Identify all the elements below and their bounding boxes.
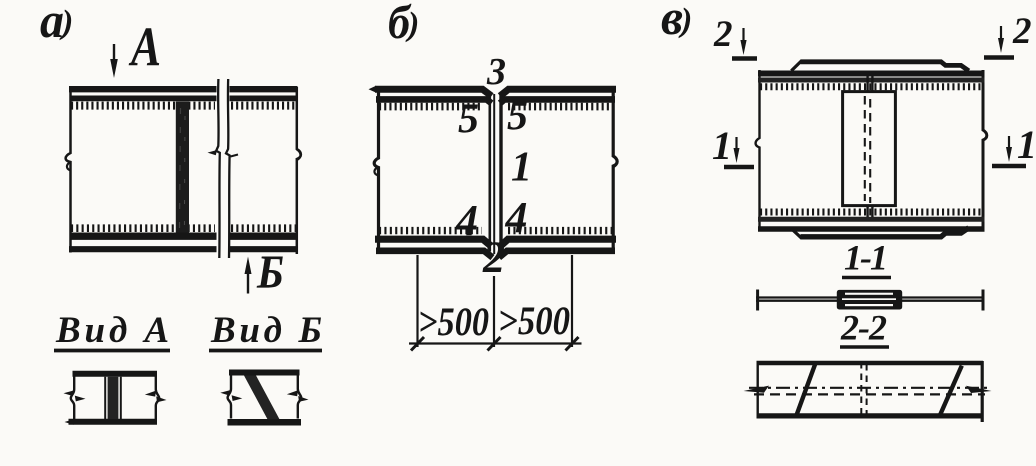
cut mark 1 right bar xyxy=(992,164,1026,169)
beam a right top hatch ticks xyxy=(231,102,296,110)
break mid dash xyxy=(231,155,239,157)
beam b left bottom flange inner bar xyxy=(375,239,491,246)
vid A weld left edge line xyxy=(104,377,106,419)
section 2-2 hidden joint dashed line 1 xyxy=(860,362,862,416)
beam a left top flange outer bar xyxy=(69,86,217,92)
svg-text:3: 3 xyxy=(486,51,506,93)
beam a right top flange outer bar xyxy=(230,86,298,92)
svg-text:5: 5 xyxy=(507,94,528,140)
beam b right bottom hatch ticks xyxy=(508,227,612,234)
web splice weld line 3 xyxy=(499,94,502,252)
beam b right top hatch ticks xyxy=(508,103,612,111)
bottom cover plate bar xyxy=(801,228,969,237)
cut mark 1 right arrow stem xyxy=(1008,136,1010,149)
package white slit web core xyxy=(842,298,896,300)
svg-text:): ) xyxy=(405,6,419,43)
beam v left edge line xyxy=(756,70,760,232)
vid A weld strip xyxy=(108,377,119,419)
dimension tick middle xyxy=(488,337,501,351)
view arrow B head xyxy=(245,257,252,275)
section 1-1 left end tick xyxy=(756,290,759,311)
svg-text:а: а xyxy=(40,0,64,48)
svg-text:>500: >500 xyxy=(498,298,570,343)
top cover plate bar xyxy=(801,62,969,71)
web joint below plate line 1 xyxy=(866,206,868,219)
section 2-2 flange bottom edge xyxy=(757,413,984,418)
svg-text:2: 2 xyxy=(482,233,505,282)
vid B bottom plate edge bar xyxy=(228,419,302,426)
bottom cover plate left bevel xyxy=(791,229,802,239)
beam a right edge line xyxy=(297,87,301,254)
vid B left break arrow xyxy=(220,390,231,396)
beam a left top flange inner bar xyxy=(70,96,217,102)
beam b left bottom hatch ticks xyxy=(379,227,482,234)
vid A left break arrow xyxy=(64,390,75,396)
vid B left edge line with break jog xyxy=(228,370,231,419)
beam b right top flange outer bar xyxy=(500,89,616,96)
svg-text:): ) xyxy=(59,4,73,41)
section 1-1 web line lower xyxy=(756,300,985,302)
section 1-1 splice plate package xyxy=(837,290,902,310)
svg-text:в: в xyxy=(661,0,683,45)
vid A right edge line with break jog xyxy=(156,371,159,419)
beam v top hatch ticks xyxy=(760,83,984,90)
title 1-1 underline xyxy=(842,276,891,280)
beam a left bottom flange inner bar xyxy=(70,232,217,239)
beam b right bottom flange outer bar xyxy=(499,251,615,258)
vid A right break dash xyxy=(156,396,166,402)
svg-text:1: 1 xyxy=(712,123,732,168)
dimension extension line left xyxy=(416,255,418,347)
svg-text:1: 1 xyxy=(1017,122,1036,167)
view arrow A stem xyxy=(113,44,115,62)
package white slit upper plate core xyxy=(845,293,893,295)
svg-text:2-2: 2-2 xyxy=(840,308,887,348)
vid B right edge line with break jog xyxy=(298,370,301,419)
svg-text:1-1: 1-1 xyxy=(844,238,888,278)
vid A right break arrow xyxy=(145,391,156,397)
vid B left break dash xyxy=(232,395,243,401)
section 2-2 axis right arrow xyxy=(966,386,992,393)
svg-text:4: 4 xyxy=(455,196,478,245)
beam b left edge line xyxy=(374,87,378,253)
dimension line xyxy=(409,342,582,344)
beam a left bottom flange outer bar xyxy=(69,246,217,252)
svg-text:2: 2 xyxy=(713,14,733,55)
beam v bottom flange edge xyxy=(758,226,985,232)
splice plate dashed weld line 1 xyxy=(864,96,866,201)
cut mark 2 left bar xyxy=(732,56,757,61)
beam v web bottom line xyxy=(758,217,985,222)
vid A top plate edge bar xyxy=(73,371,158,377)
beam a right bottom hatch ticks xyxy=(231,224,296,232)
beam a right bottom flange inner bar xyxy=(230,232,298,239)
beam a left edge line xyxy=(66,86,71,253)
svg-text:Б: Б xyxy=(256,246,284,299)
cut mark 1 left arrow head xyxy=(734,148,740,163)
beam b right top flange inner bar xyxy=(500,99,615,103)
beam v top flange edge xyxy=(758,71,985,77)
cut mark 2 right arrow head xyxy=(998,38,1004,53)
vid B right break dash xyxy=(298,396,308,402)
view arrow B stem xyxy=(247,272,249,294)
section 2-2 right edge xyxy=(981,361,984,422)
dimension tick left xyxy=(411,337,424,351)
title Vid B underline xyxy=(209,349,322,353)
section 2-2 hidden dashed line xyxy=(754,393,985,395)
section 1-1 right end tick xyxy=(982,290,985,311)
beam b right edge line xyxy=(613,87,617,253)
section 2-2 weld diagonal left xyxy=(796,364,815,417)
beam b left edge break tip xyxy=(374,167,378,176)
vid B oblique weld strip xyxy=(244,376,280,420)
svg-text:2: 2 xyxy=(1012,11,1032,52)
beam a right top flange inner bar xyxy=(230,96,298,102)
cut mark 2 right arrow stem xyxy=(1000,26,1002,40)
vid A bottom bar left point xyxy=(65,419,74,425)
title 2-2 underline xyxy=(840,345,889,349)
break mid arrow flag xyxy=(208,150,218,155)
break line right wavy xyxy=(226,79,230,258)
dimension extension line middle xyxy=(493,276,495,347)
package white slit lower plate core xyxy=(845,304,893,306)
beam a right edge break tip xyxy=(297,150,301,161)
web joint below plate line 2 xyxy=(871,206,873,219)
cut mark 1 right arrow head xyxy=(1006,147,1012,162)
cut mark 2 left arrow head xyxy=(740,40,746,55)
vid B right break arrow xyxy=(287,390,298,396)
section 2-2 hidden joint dashed line 2 xyxy=(866,364,868,416)
cut mark 2 left arrow stem xyxy=(742,28,744,42)
svg-text:Вид А: Вид А xyxy=(55,310,169,351)
break line left wavy xyxy=(216,79,220,258)
beam a left edge break tip xyxy=(67,162,71,171)
dimension tick right xyxy=(566,337,579,351)
vid A left edge line with break jog xyxy=(71,371,74,419)
web splice plate xyxy=(843,92,896,206)
section 1-1 web line upper xyxy=(756,296,985,298)
cut mark 2 right bar xyxy=(984,55,1014,60)
svg-text:4: 4 xyxy=(505,193,528,242)
svg-text:>500: >500 xyxy=(418,299,489,344)
cut mark 1 left bar xyxy=(724,165,754,170)
vid A weld right edge line xyxy=(120,377,122,419)
cut mark 1 left arrow stem xyxy=(735,137,737,150)
vid B top plate edge bar xyxy=(229,370,300,376)
web butt weld seam strip xyxy=(176,102,189,233)
web joint above plate line 1 xyxy=(866,76,868,92)
vid A left break dash xyxy=(75,396,86,402)
dimension extension line right xyxy=(571,255,573,347)
beam v right edge line xyxy=(983,70,987,232)
beam b left top flange pointed tip xyxy=(369,86,377,93)
web joint above plate line 2 xyxy=(871,76,873,92)
top cover plate left bevel xyxy=(791,61,802,71)
splice plate dashed weld line 2 xyxy=(869,99,871,203)
view arrow A head xyxy=(110,59,118,78)
svg-text:): ) xyxy=(678,2,692,39)
beam b right edge break tip xyxy=(614,157,618,168)
svg-text:А: А xyxy=(129,17,161,79)
svg-text:Вид Б: Вид Б xyxy=(210,310,322,351)
web splice weld line 2 xyxy=(493,94,495,254)
title Vid A underline xyxy=(54,349,170,353)
vid A bottom plate edge bar xyxy=(69,419,158,425)
section 2-2 axis left arrow xyxy=(744,386,770,393)
beam b left top hatch ticks xyxy=(379,103,482,111)
beam a left bottom weld hatch ticks xyxy=(71,224,215,232)
svg-text:1: 1 xyxy=(511,145,532,191)
section 2-2 weld diagonal right xyxy=(940,366,962,416)
weld strip texture xyxy=(180,108,181,228)
beam b left top flange inner bar xyxy=(376,99,492,103)
beam b right bottom flange inner bar xyxy=(501,239,617,246)
beam v web top line xyxy=(758,78,985,83)
beam b left top flange outer bar xyxy=(375,89,492,96)
section 2-2 left edge xyxy=(757,361,759,418)
beam b left bottom flange outer bar xyxy=(376,251,493,258)
beam a left top weld hatch ticks xyxy=(71,102,215,110)
section 2-2 axis dash-dot line xyxy=(749,387,989,389)
beam a right bottom flange outer bar xyxy=(230,246,297,252)
beam v bottom hatch ticks xyxy=(760,209,984,216)
web splice weld line 1 xyxy=(488,94,491,252)
svg-text:5: 5 xyxy=(458,97,479,143)
section 2-2 flange top edge xyxy=(757,361,984,366)
